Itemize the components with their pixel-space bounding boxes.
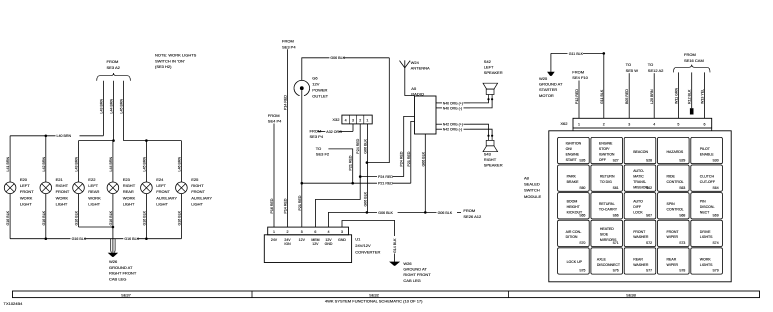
svg-text:BEACON: BEACON [633, 150, 648, 154]
plug terminator [690, 108, 694, 114]
svg-text:TO: TO [626, 62, 631, 67]
svg-text:SWITCH IN ‘ON’: SWITCH IN ‘ON’ [155, 58, 185, 63]
svg-text:POWER: POWER [312, 88, 327, 93]
svg-text:NOTE: WORK LIGHTS: NOTE: WORK LIGHTS [155, 53, 197, 58]
svg-text:WORK: WORK [700, 257, 712, 261]
svg-text:E24: E24 [156, 177, 164, 182]
svg-text:RIGHT FRONT: RIGHT FRONT [109, 271, 137, 276]
svg-text:G16 BLK: G16 BLK [42, 210, 46, 225]
svg-text:DISCON-: DISCON- [700, 205, 716, 209]
speaker S42 [483, 83, 498, 99]
ground W26 (left) [112, 239, 114, 255]
svg-text:L43 BRN: L43 BRN [99, 99, 103, 114]
brace from SE16 CAM [673, 65, 710, 73]
wire L45 BRN from brace to right lamps [123, 81, 125, 141]
svg-text:E25: E25 [191, 177, 199, 182]
switch S69 PIN DISCON- NECT [691, 193, 723, 219]
svg-text:CUT-OFF: CUT-OFF [700, 180, 715, 184]
svg-text:G11 BLK: G11 BLK [569, 52, 584, 56]
svg-text:S30: S30 [713, 158, 719, 162]
svg-text:R12 BLK: R12 BLK [688, 89, 692, 104]
svg-text:24V: 24V [284, 238, 291, 242]
svg-text:AXLE: AXLE [597, 257, 607, 261]
switch S26 IGNITION ON/ ENGINE START [558, 137, 590, 163]
svg-text:S68: S68 [679, 214, 685, 218]
wire W11 GRN to X62 pin 5 [677, 72, 679, 118]
svg-text:WORK: WORK [88, 195, 101, 200]
junction P24 RED branch [359, 175, 362, 178]
wire L44 BRN above lamp E23 [112, 141, 114, 182]
svg-text:CLUTCH: CLUTCH [700, 175, 715, 179]
svg-text:12V: 12V [299, 238, 306, 242]
svg-text:AIR CON-: AIR CON- [566, 230, 583, 234]
junction bus / X32 G06 [366, 211, 369, 214]
svg-text:FROM: FROM [282, 39, 294, 44]
svg-text:FROM: FROM [572, 69, 584, 74]
svg-text:OFF: OFF [599, 158, 606, 162]
svg-text:S60: S60 [579, 186, 585, 190]
svg-text:ENABLE: ENABLE [700, 153, 714, 157]
svg-text:S62: S62 [646, 186, 652, 190]
svg-text:S63: S63 [679, 186, 685, 190]
svg-text:WORK: WORK [20, 195, 33, 200]
svg-text:W11 GRN: W11 GRN [674, 87, 678, 104]
svg-text:4: 4 [328, 230, 330, 234]
svg-text:WORK: WORK [123, 195, 136, 200]
wire L20 BRN to X62 pin 4 [653, 73, 655, 118]
wire L40 BRN bus (top, lamps E20-E21) [10, 135, 55, 137]
svg-text:REAR: REAR [633, 257, 643, 261]
svg-text:P21 RED: P21 RED [407, 151, 411, 166]
svg-text:LEFT: LEFT [88, 183, 98, 188]
svg-text:SE5 W: SE5 W [626, 68, 639, 73]
svg-text:G16 BLK: G16 BLK [124, 237, 139, 241]
svg-text:L44 BRN: L44 BRN [109, 157, 113, 172]
junction G06 BLK at radio branch [366, 161, 369, 164]
svg-text:L44 BRN: L44 BRN [110, 99, 114, 114]
wire P16 RED from SE4 P4 to U1 pin 1 [273, 124, 275, 228]
svg-text:G06 BLK: G06 BLK [330, 56, 345, 60]
switch S30 PILOT ENABLE [691, 137, 723, 163]
svg-text:SE37: SE37 [121, 292, 132, 297]
svg-text:P24 RED: P24 RED [400, 151, 404, 166]
svg-text:SE3 P4: SE3 P4 [282, 44, 296, 49]
svg-text:IGN: IGN [284, 242, 291, 246]
svg-text:NECT: NECT [700, 210, 710, 214]
section bar [13, 291, 760, 298]
junction on L40 BRN bus at E21 [45, 135, 48, 138]
svg-text:2: 2 [287, 230, 289, 234]
svg-text:S76: S76 [613, 269, 619, 273]
svg-text:L43 BRN: L43 BRN [75, 157, 79, 172]
switch S71 HEATED SIDE MIRRORS [591, 220, 623, 246]
svg-text:X32: X32 [332, 117, 340, 122]
wire L44 BRN from brace to E23 [113, 81, 115, 141]
svg-text:G16 BLK: G16 BLK [142, 210, 146, 225]
switch S79 WORK LIGHTS [691, 248, 723, 274]
svg-text:S29: S29 [679, 158, 685, 162]
svg-text:N40 ORG (+): N40 ORG (+) [443, 101, 463, 105]
wire X62 to module (right) [711, 128, 713, 131]
svg-text:LOCK: LOCK [633, 210, 643, 214]
switch S75 LOCK UP [558, 248, 590, 274]
switch S74 DRIVE LIGHTS [691, 220, 723, 246]
svg-text:G06 BLK: G06 BLK [378, 211, 393, 215]
svg-text:RETURN-: RETURN- [599, 202, 616, 206]
svg-text:G06 BLK: G06 BLK [438, 211, 453, 215]
svg-text:CAB LEG: CAB LEG [403, 278, 420, 283]
wire L43 BRN from brace to lamp bus [102, 81, 104, 136]
switch S76 AXLE DISCONNECT [591, 248, 623, 274]
svg-text:G16 BLK: G16 BLK [75, 210, 79, 225]
junction at E24 wire [145, 139, 148, 142]
svg-text:SE4 P4: SE4 P4 [268, 119, 282, 124]
svg-text:W26: W26 [403, 261, 412, 266]
svg-text:LEFT: LEFT [484, 65, 494, 70]
svg-text:W26: W26 [109, 259, 118, 264]
svg-text:A32 ORG: A32 ORG [326, 130, 342, 134]
wire G14 BLK from U1 pin 3 to ground [342, 221, 395, 237]
wire L45 BRN above lamp E24 [145, 141, 147, 182]
svg-text:N42 ORG (+): N42 ORG (+) [443, 123, 463, 127]
wire G16 BLK below lamp E21 [45, 194, 47, 239]
svg-text:RIGHT: RIGHT [191, 183, 204, 188]
wire P12 RED to X62 pin 1 [578, 81, 580, 119]
svg-text:E20: E20 [20, 177, 28, 182]
svg-text:LIGHT: LIGHT [88, 202, 100, 207]
switch S67 AUTO DIFF LOCK [624, 193, 656, 219]
wire bus to E22 [79, 140, 114, 142]
svg-text:FRONT: FRONT [156, 189, 170, 194]
svg-text:A5: A5 [411, 86, 417, 91]
svg-text:24V/12V: 24V/12V [355, 243, 371, 248]
svg-text:3: 3 [628, 122, 630, 126]
svg-text:SE38: SE38 [626, 292, 637, 297]
wire L41 BRN above lamp E20 [9, 136, 11, 182]
svg-text:SEALED: SEALED [524, 182, 540, 187]
switch S77 REAR WASHER [624, 248, 656, 274]
svg-text:L20 BRN: L20 BRN [650, 89, 654, 104]
svg-text:G06 BLK: G06 BLK [421, 151, 425, 166]
svg-text:S61: S61 [613, 186, 619, 190]
switch S72 FRONT WASHER [624, 220, 656, 246]
svg-text:U1: U1 [355, 237, 361, 242]
svg-text:P14 RED: P14 RED [284, 95, 288, 110]
svg-text:ENGINE: ENGINE [566, 153, 580, 157]
wire N40 ORG (-) [436, 107, 442, 109]
switch S62 AUTO- MATIC TRANS- MISSION [624, 165, 656, 191]
svg-text:OUTLET: OUTLET [312, 94, 328, 99]
svg-text:S28: S28 [646, 158, 652, 162]
svg-text:MOTOR: MOTOR [539, 93, 554, 98]
svg-text:FRONT: FRONT [56, 189, 70, 194]
svg-text:TX1024B4: TX1024B4 [4, 301, 24, 306]
svg-text:4: 4 [653, 122, 655, 126]
svg-text:TO-CARRY: TO-CARRY [599, 208, 618, 212]
terminal dots S43 [487, 135, 489, 137]
ground W26 (center) [394, 254, 396, 263]
svg-text:N42 ORG (-): N42 ORG (-) [443, 128, 462, 132]
svg-text:AUTO-: AUTO- [633, 169, 645, 173]
svg-text:SPEAKER: SPEAKER [484, 163, 503, 168]
switch S73 FRONT WIPER [658, 220, 690, 246]
svg-text:G6: G6 [312, 75, 318, 80]
svg-text:GND: GND [338, 238, 346, 242]
svg-text:CONTROL: CONTROL [667, 180, 684, 184]
svg-text:2: 2 [603, 122, 605, 126]
svg-text:S26: S26 [579, 158, 585, 162]
converter U1 pin strip [268, 227, 349, 235]
svg-text:G16 BLK: G16 BLK [109, 210, 113, 225]
junction ground bus at E24 [145, 237, 148, 240]
junction P21 RED [351, 182, 354, 185]
wire G06 BLK outlet top run [302, 58, 330, 81]
terminal dots S42 [487, 98, 489, 100]
svg-text:W13 YEL: W13 YEL [701, 89, 705, 104]
lamp E23 RIGHT REAR WORK LIGHT [107, 182, 119, 194]
svg-text:PILOT: PILOT [700, 147, 711, 151]
svg-text:6: 6 [704, 122, 706, 126]
svg-text:HAZARDS: HAZARDS [667, 150, 684, 154]
svg-text:P14 RED: P14 RED [284, 198, 288, 213]
svg-text:REAR: REAR [88, 189, 99, 194]
lamp E24 LEFT FRONT AUXILIARY LIGHT [141, 182, 153, 194]
switch S66 RETURN- TO-CARRY [591, 193, 623, 219]
svg-text:GROUND AT: GROUND AT [109, 265, 133, 270]
svg-text:3: 3 [352, 118, 354, 122]
svg-text:DISCONNECT: DISCONNECT [597, 263, 621, 267]
wire W13 YEL to X62 pin 6 [704, 72, 706, 118]
wire G06 BLK down to X32 pin1 branch [367, 58, 389, 163]
svg-text:FROM: FROM [463, 208, 475, 213]
svg-text:SWITCH: SWITCH [524, 188, 540, 193]
svg-text:RIGHT: RIGHT [484, 157, 497, 162]
wire G16 BLK below lamp E20 [9, 194, 11, 239]
switch S61 RETURN TO DIG [591, 165, 623, 191]
wire A32 ORG from SE3 P4 to X32 pin 3 [318, 130, 326, 132]
svg-text:SE3 A2: SE3 A2 [107, 65, 121, 70]
junction ground bus at E21 [45, 237, 48, 240]
svg-text:BOOM: BOOM [567, 200, 578, 204]
svg-text:GROUND AT: GROUND AT [403, 267, 427, 272]
svg-text:CONVERTER: CONVERTER [355, 250, 380, 255]
svg-text:1: 1 [273, 230, 275, 234]
lamp E21 RIGHT FRONT WORK LIGHT [40, 182, 52, 194]
svg-text:G11 BLK: G11 BLK [600, 89, 604, 104]
svg-text:SPIN: SPIN [667, 202, 676, 206]
svg-text:SE3 F2: SE3 F2 [316, 152, 330, 157]
svg-text:BRAKE: BRAKE [567, 180, 580, 184]
svg-text:E21: E21 [56, 177, 64, 182]
connector X62 [573, 118, 712, 128]
wire X62 to module (left) [572, 128, 574, 131]
svg-text:HEATED: HEATED [600, 227, 614, 231]
svg-text:IGNITION: IGNITION [599, 153, 615, 157]
wire G16 BLK below lamp E24 [145, 194, 147, 239]
svg-text:SE4 F10: SE4 F10 [572, 75, 588, 80]
svg-text:S64: S64 [713, 186, 719, 190]
svg-text:STOP/: STOP/ [599, 147, 609, 151]
switch S78 REAR WIPER [658, 248, 690, 274]
svg-text:LIGHTS: LIGHTS [700, 263, 713, 267]
svg-text:AUXILIARY: AUXILIARY [156, 195, 177, 200]
radio A5 [415, 96, 437, 134]
svg-text:FRONT: FRONT [191, 189, 205, 194]
svg-text:FROM: FROM [107, 59, 119, 64]
svg-text:LIGHT: LIGHT [191, 202, 203, 207]
svg-text:G16 BLK: G16 BLK [72, 237, 87, 241]
svg-text:P24 RED: P24 RED [378, 175, 393, 179]
svg-text:IGNITION: IGNITION [566, 142, 582, 146]
junction G11 BLK [603, 52, 606, 55]
svg-text:WASHER: WASHER [633, 263, 649, 267]
svg-text:SE32: SE32 [369, 292, 380, 297]
switch S29 HAZARDS [658, 137, 690, 163]
svg-text:WASHER: WASHER [633, 235, 649, 239]
wire G06 BLK ground bus from U1 pin 4 [329, 212, 378, 227]
svg-text:5: 5 [301, 230, 303, 234]
divider SE32/SE38 [508, 291, 510, 298]
svg-text:TRANS-: TRANS- [633, 180, 647, 184]
svg-text:12V: 12V [312, 81, 319, 86]
wire G16 BLK below lamp E22 [78, 194, 80, 227]
svg-text:S72: S72 [646, 241, 652, 245]
lamp E25 RIGHT FRONT AUXILIARY LIGHT [176, 182, 188, 194]
svg-text:LEFT: LEFT [156, 183, 166, 188]
wire B05 RED to X62 pin 3 [628, 73, 630, 118]
svg-text:RIGHT: RIGHT [123, 183, 136, 188]
svg-text:ANTENNA: ANTENNA [411, 66, 430, 71]
svg-text:L45 BRN: L45 BRN [120, 99, 124, 114]
svg-text:S42: S42 [484, 59, 492, 64]
switch S28 BEACON [624, 137, 656, 163]
lamp E22 LEFT REAR WORK LIGHT [73, 182, 85, 194]
wire L42 BRN above lamp E21 [45, 136, 47, 182]
power outlet G6 [294, 80, 310, 95]
svg-text:GND: GND [325, 242, 333, 246]
svg-text:WORK: WORK [56, 195, 69, 200]
svg-text:TO DIG: TO DIG [600, 180, 612, 184]
svg-text:P21 RED: P21 RED [298, 195, 302, 210]
wire L46 BRN above lamp E25 [180, 141, 182, 182]
svg-text:L40 BRN: L40 BRN [57, 134, 72, 138]
svg-text:S75: S75 [579, 269, 585, 273]
divider SE37/SE32 [251, 291, 253, 298]
switch S63 RIDE CONTROL [658, 165, 690, 191]
wire G16 BLK below lamp E25 [180, 194, 182, 239]
svg-text:S65: S65 [579, 214, 585, 218]
svg-text:SE26 A12: SE26 A12 [463, 214, 482, 219]
svg-text:2: 2 [359, 118, 361, 122]
svg-text:S74: S74 [713, 241, 719, 245]
svg-text:LIGHT: LIGHT [156, 202, 168, 207]
wire G06 BLK from X32 pin 1 to ground bus [366, 124, 368, 212]
switch S68 SPIN CONTROL [658, 193, 690, 219]
svg-text:P21 RED: P21 RED [349, 155, 353, 170]
svg-text:A8: A8 [524, 176, 530, 181]
wire P14 RED from SE3 P4 to U1 pin 2 [287, 49, 289, 227]
junction at E23 wire [112, 139, 115, 142]
svg-text:RIGHT: RIGHT [56, 183, 69, 188]
svg-text:LIGHT: LIGHT [123, 202, 135, 207]
svg-text:G16 BLK: G16 BLK [177, 210, 181, 225]
svg-text:REAR: REAR [667, 257, 677, 261]
svg-text:PARK: PARK [567, 175, 577, 179]
svg-text:G06 BLK: G06 BLK [363, 191, 367, 206]
svg-text:REAR: REAR [123, 189, 134, 194]
svg-text:6: 6 [314, 230, 316, 234]
svg-text:P12 RED: P12 RED [575, 89, 579, 104]
wire G16 BLK below lamp E23 [112, 194, 114, 239]
svg-text:LIGHT: LIGHT [20, 202, 32, 207]
wire P24 RED to radio [360, 176, 377, 178]
svg-text:CONTROL: CONTROL [667, 208, 684, 212]
svg-text:RETURN: RETURN [600, 175, 615, 179]
wire P21 RED outlet stem to U1 pin 5 [301, 90, 303, 227]
svg-text:1: 1 [366, 118, 368, 122]
brace from SE3 A2 [97, 73, 131, 81]
svg-text:S79: S79 [713, 269, 719, 273]
svg-text:CAB LEG: CAB LEG [109, 276, 126, 281]
wire G06 BLK radio ground [424, 134, 426, 212]
svg-text:12V: 12V [325, 238, 332, 242]
svg-text:SIDE: SIDE [600, 233, 609, 237]
switch S60 PARK BRAKE [558, 165, 590, 191]
svg-text:AUXILIARY: AUXILIARY [191, 195, 212, 200]
switch S65 BOOM HEIGHT KICKOUT [558, 193, 590, 219]
svg-text:S70: S70 [579, 241, 585, 245]
svg-text:S43: S43 [484, 151, 492, 156]
svg-text:S73: S73 [679, 241, 685, 245]
svg-text:G16 BLK: G16 BLK [6, 210, 10, 225]
svg-text:DIFF: DIFF [633, 205, 641, 209]
wire N42 ORG (+) [436, 123, 442, 125]
switch module A8 body [549, 131, 731, 282]
svg-text:4: 4 [345, 118, 347, 122]
svg-text:LIGHT: LIGHT [56, 202, 68, 207]
svg-text:MATIC: MATIC [633, 175, 644, 179]
svg-text:N40 ORG (-): N40 ORG (-) [443, 106, 462, 110]
svg-text:LIGHTS: LIGHTS [700, 235, 713, 239]
svg-text:RIGHT FRONT: RIGHT FRONT [403, 272, 431, 277]
svg-text:GROUND AT: GROUND AT [539, 82, 563, 87]
svg-text:ENGINE: ENGINE [599, 142, 613, 146]
svg-text:S27: S27 [613, 158, 619, 162]
switch S70 AIR CON- DITION [558, 220, 590, 246]
svg-text:DRIVE: DRIVE [700, 230, 711, 234]
svg-text:RIDE: RIDE [667, 175, 676, 179]
svg-text:DITION: DITION [566, 235, 578, 239]
svg-text:FRONT: FRONT [667, 230, 680, 234]
wire E22 ground link [79, 226, 113, 228]
svg-text:START: START [566, 158, 578, 162]
svg-text:X62: X62 [560, 121, 568, 126]
svg-text:S78: S78 [679, 269, 685, 273]
svg-text:MEM: MEM [311, 238, 319, 242]
svg-text:W25: W25 [539, 76, 548, 81]
lamp E20 LEFT FRONT WORK LIGHT [4, 182, 16, 194]
svg-text:24V: 24V [271, 238, 278, 242]
switch S64 CLUTCH CUT-OFF [691, 165, 723, 191]
ground W25 at starter motor [550, 53, 552, 72]
svg-text:P16 RED: P16 RED [270, 198, 274, 213]
speaker S43 [483, 136, 498, 152]
svg-text:TO: TO [316, 146, 321, 151]
svg-text:12V: 12V [312, 242, 319, 246]
wire G11 BLK to X62 pin 2 [551, 52, 568, 54]
wire P21 RED from SE3 F2 [328, 149, 352, 183]
svg-text:FROM: FROM [684, 52, 696, 57]
